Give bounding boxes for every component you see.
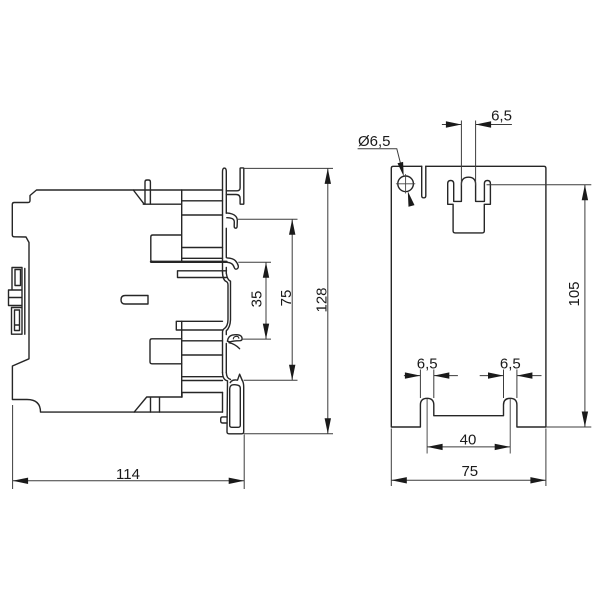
arrow 75L bottom bbox=[289, 365, 295, 381]
arrow 6,5 top right bbox=[476, 121, 492, 127]
terminal lines top section bbox=[182, 201, 223, 258]
top slit bbox=[422, 166, 426, 198]
leader Ø6,5 bbox=[358, 149, 403, 173]
arrow 6,5 bl right bbox=[434, 372, 450, 378]
dim 6,5 bottom-left ext lines bbox=[420, 370, 433, 399]
arrow leader top bbox=[398, 162, 404, 176]
arrow 105 bottom bbox=[582, 412, 588, 428]
arrow 75L top bbox=[289, 219, 295, 235]
hook3 inner notch bbox=[233, 336, 239, 339]
arrow 35 bottom bbox=[263, 324, 269, 340]
dim 40 line bbox=[427, 446, 510, 448]
dimension texts bbox=[116, 108, 583, 484]
svg-text:128: 128 bbox=[313, 287, 330, 312]
bar2 bbox=[176, 321, 222, 330]
plate lower S-bend and foot bbox=[223, 373, 244, 434]
svg-text:6,5: 6,5 bbox=[417, 356, 438, 373]
arrow 75R left bbox=[391, 477, 407, 483]
dim 105 ext lines bbox=[487, 185, 592, 427]
arrow 35 top bbox=[263, 262, 269, 278]
dim 75L ext lines bbox=[238, 219, 298, 380]
dim 6,5 bottom-left tails bbox=[404, 375, 458, 377]
dim 75R line bbox=[391, 479, 546, 481]
shelf under top section bbox=[151, 261, 227, 263]
crown cutout bbox=[448, 177, 491, 233]
svg-text:6,5: 6,5 bbox=[500, 356, 521, 373]
dim 35 line bbox=[265, 262, 267, 339]
dim 75R ext lines bbox=[391, 429, 546, 487]
svg-text:6,5: 6,5 bbox=[491, 108, 512, 125]
dim 6,5 top tails bbox=[442, 124, 512, 126]
arrow 128 bottom bbox=[325, 418, 331, 434]
dim 105 line bbox=[584, 185, 586, 427]
hook1 bbox=[226, 213, 237, 228]
top release tab bbox=[145, 180, 150, 204]
dim 6,5 bottom-right tails bbox=[480, 375, 542, 377]
arrowheads bbox=[13, 121, 589, 484]
DIN clip slider bbox=[9, 268, 23, 335]
dim 35 ext lines bbox=[238, 262, 271, 339]
mounting plate side view bbox=[223, 168, 227, 412]
arrow 6,5 bl left bbox=[405, 372, 421, 378]
svg-text:114: 114 bbox=[116, 466, 140, 483]
dim 6,5 top ext lines bbox=[461, 121, 475, 186]
dim 114 line bbox=[13, 480, 245, 482]
lever recess bevel bbox=[133, 190, 181, 204]
arrow 6,5 top left bbox=[446, 121, 462, 127]
hole crosshair bbox=[396, 175, 415, 194]
foot inner box bbox=[230, 385, 241, 428]
terminal lines bottom section bbox=[182, 341, 223, 381]
bar1 bbox=[178, 271, 227, 278]
lower shelf line bbox=[182, 393, 223, 398]
arrow 6,5 br left bbox=[488, 372, 504, 378]
plate joggle right line bbox=[226, 273, 230, 372]
arrow 114 left bbox=[13, 478, 29, 484]
coil box top bbox=[151, 235, 181, 262]
dim 75L line bbox=[291, 219, 293, 380]
dim 114 ext lines bbox=[13, 405, 245, 489]
top Z-flange bbox=[226, 168, 244, 204]
arrow 114 right bbox=[229, 478, 245, 484]
body outer contour bbox=[12, 190, 222, 412]
arrow 105 top bbox=[582, 185, 588, 201]
hole Ø6,5 bbox=[398, 176, 414, 192]
oval slot bbox=[121, 296, 148, 305]
arrow 40 right bbox=[495, 444, 511, 450]
svg-text:105: 105 bbox=[566, 281, 583, 306]
hook2 bbox=[227, 258, 238, 269]
hook4 spike bbox=[230, 374, 242, 382]
dim 128 ext lines bbox=[244, 168, 333, 433]
arrow 128 top bbox=[325, 168, 331, 184]
slot centerlines bbox=[427, 399, 510, 454]
coil box bottom bbox=[150, 339, 182, 364]
hook3 bbox=[227, 335, 242, 349]
svg-text:75: 75 bbox=[278, 290, 295, 307]
dim 128 line bbox=[327, 168, 329, 433]
arrow 75R right bbox=[530, 477, 546, 483]
svg-text:Ø6,5: Ø6,5 bbox=[358, 133, 391, 150]
vertical divider x=181.7 bbox=[181, 190, 183, 397]
bottom edge detail: diagonal step and legs bbox=[134, 397, 182, 412]
svg-text:35: 35 bbox=[249, 291, 266, 308]
foot left notch bbox=[221, 417, 227, 423]
svg-text:75: 75 bbox=[461, 463, 478, 480]
dim 6,5 bottom-right ext lines bbox=[504, 370, 517, 399]
arrow leader bottom bbox=[408, 191, 415, 206]
arrow 40 left bbox=[427, 444, 443, 450]
plate joggle left line bbox=[223, 272, 229, 372]
arrow 6,5 br right bbox=[517, 372, 533, 378]
svg-text:40: 40 bbox=[460, 432, 477, 449]
plate outline bbox=[391, 166, 546, 427]
